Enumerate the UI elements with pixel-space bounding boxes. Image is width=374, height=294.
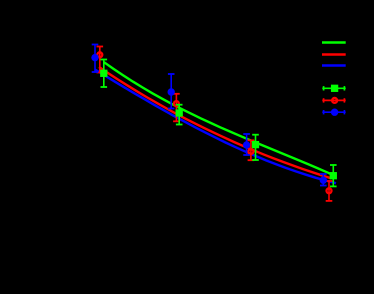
legend entry: blue solid line [322,64,346,67]
error bar red series, point 4 [326,181,333,201]
legend entry: blue marker with error bar [322,109,345,116]
data marker blue series, point 4 [320,177,327,184]
data marker red series, point 3 [248,149,253,154]
error bar red series, point 2 [173,94,180,122]
error bar red series, point 3 [248,140,255,160]
error bar blue series, point 1 [92,45,99,73]
data marker red series, point 4 [327,188,332,193]
data marker green series, point 1 [100,70,107,77]
fit curve red [99,67,331,178]
error bar green series, point 2 [176,105,183,125]
data marker green series, point 2 [176,109,183,116]
legend entry: red marker with error bar [322,98,345,103]
error bar blue series, point 2 [168,74,175,109]
fit curve blue [95,70,336,184]
legend entry: green solid line [322,41,346,44]
error bar blue series, point 3 [243,134,250,155]
data marker blue series, point 1 [91,54,98,61]
legend entry: green marker with error bar [322,85,345,92]
error bar red series, point 1 [97,47,104,73]
fit curve green [104,62,337,176]
error bar green series, point 4 [330,165,337,186]
data marker red series, point 2 [174,101,179,106]
error bar green series, point 3 [252,135,259,160]
error bar green series, point 1 [101,60,108,88]
data marker green series, point 4 [330,172,337,179]
legend entry: red solid line [322,53,346,56]
data marker green series, point 3 [252,141,259,148]
data marker red series, point 1 [97,52,102,57]
error bar blue series, point 4 [320,174,327,186]
data marker blue series, point 2 [168,88,175,95]
data marker blue series, point 3 [243,141,250,148]
